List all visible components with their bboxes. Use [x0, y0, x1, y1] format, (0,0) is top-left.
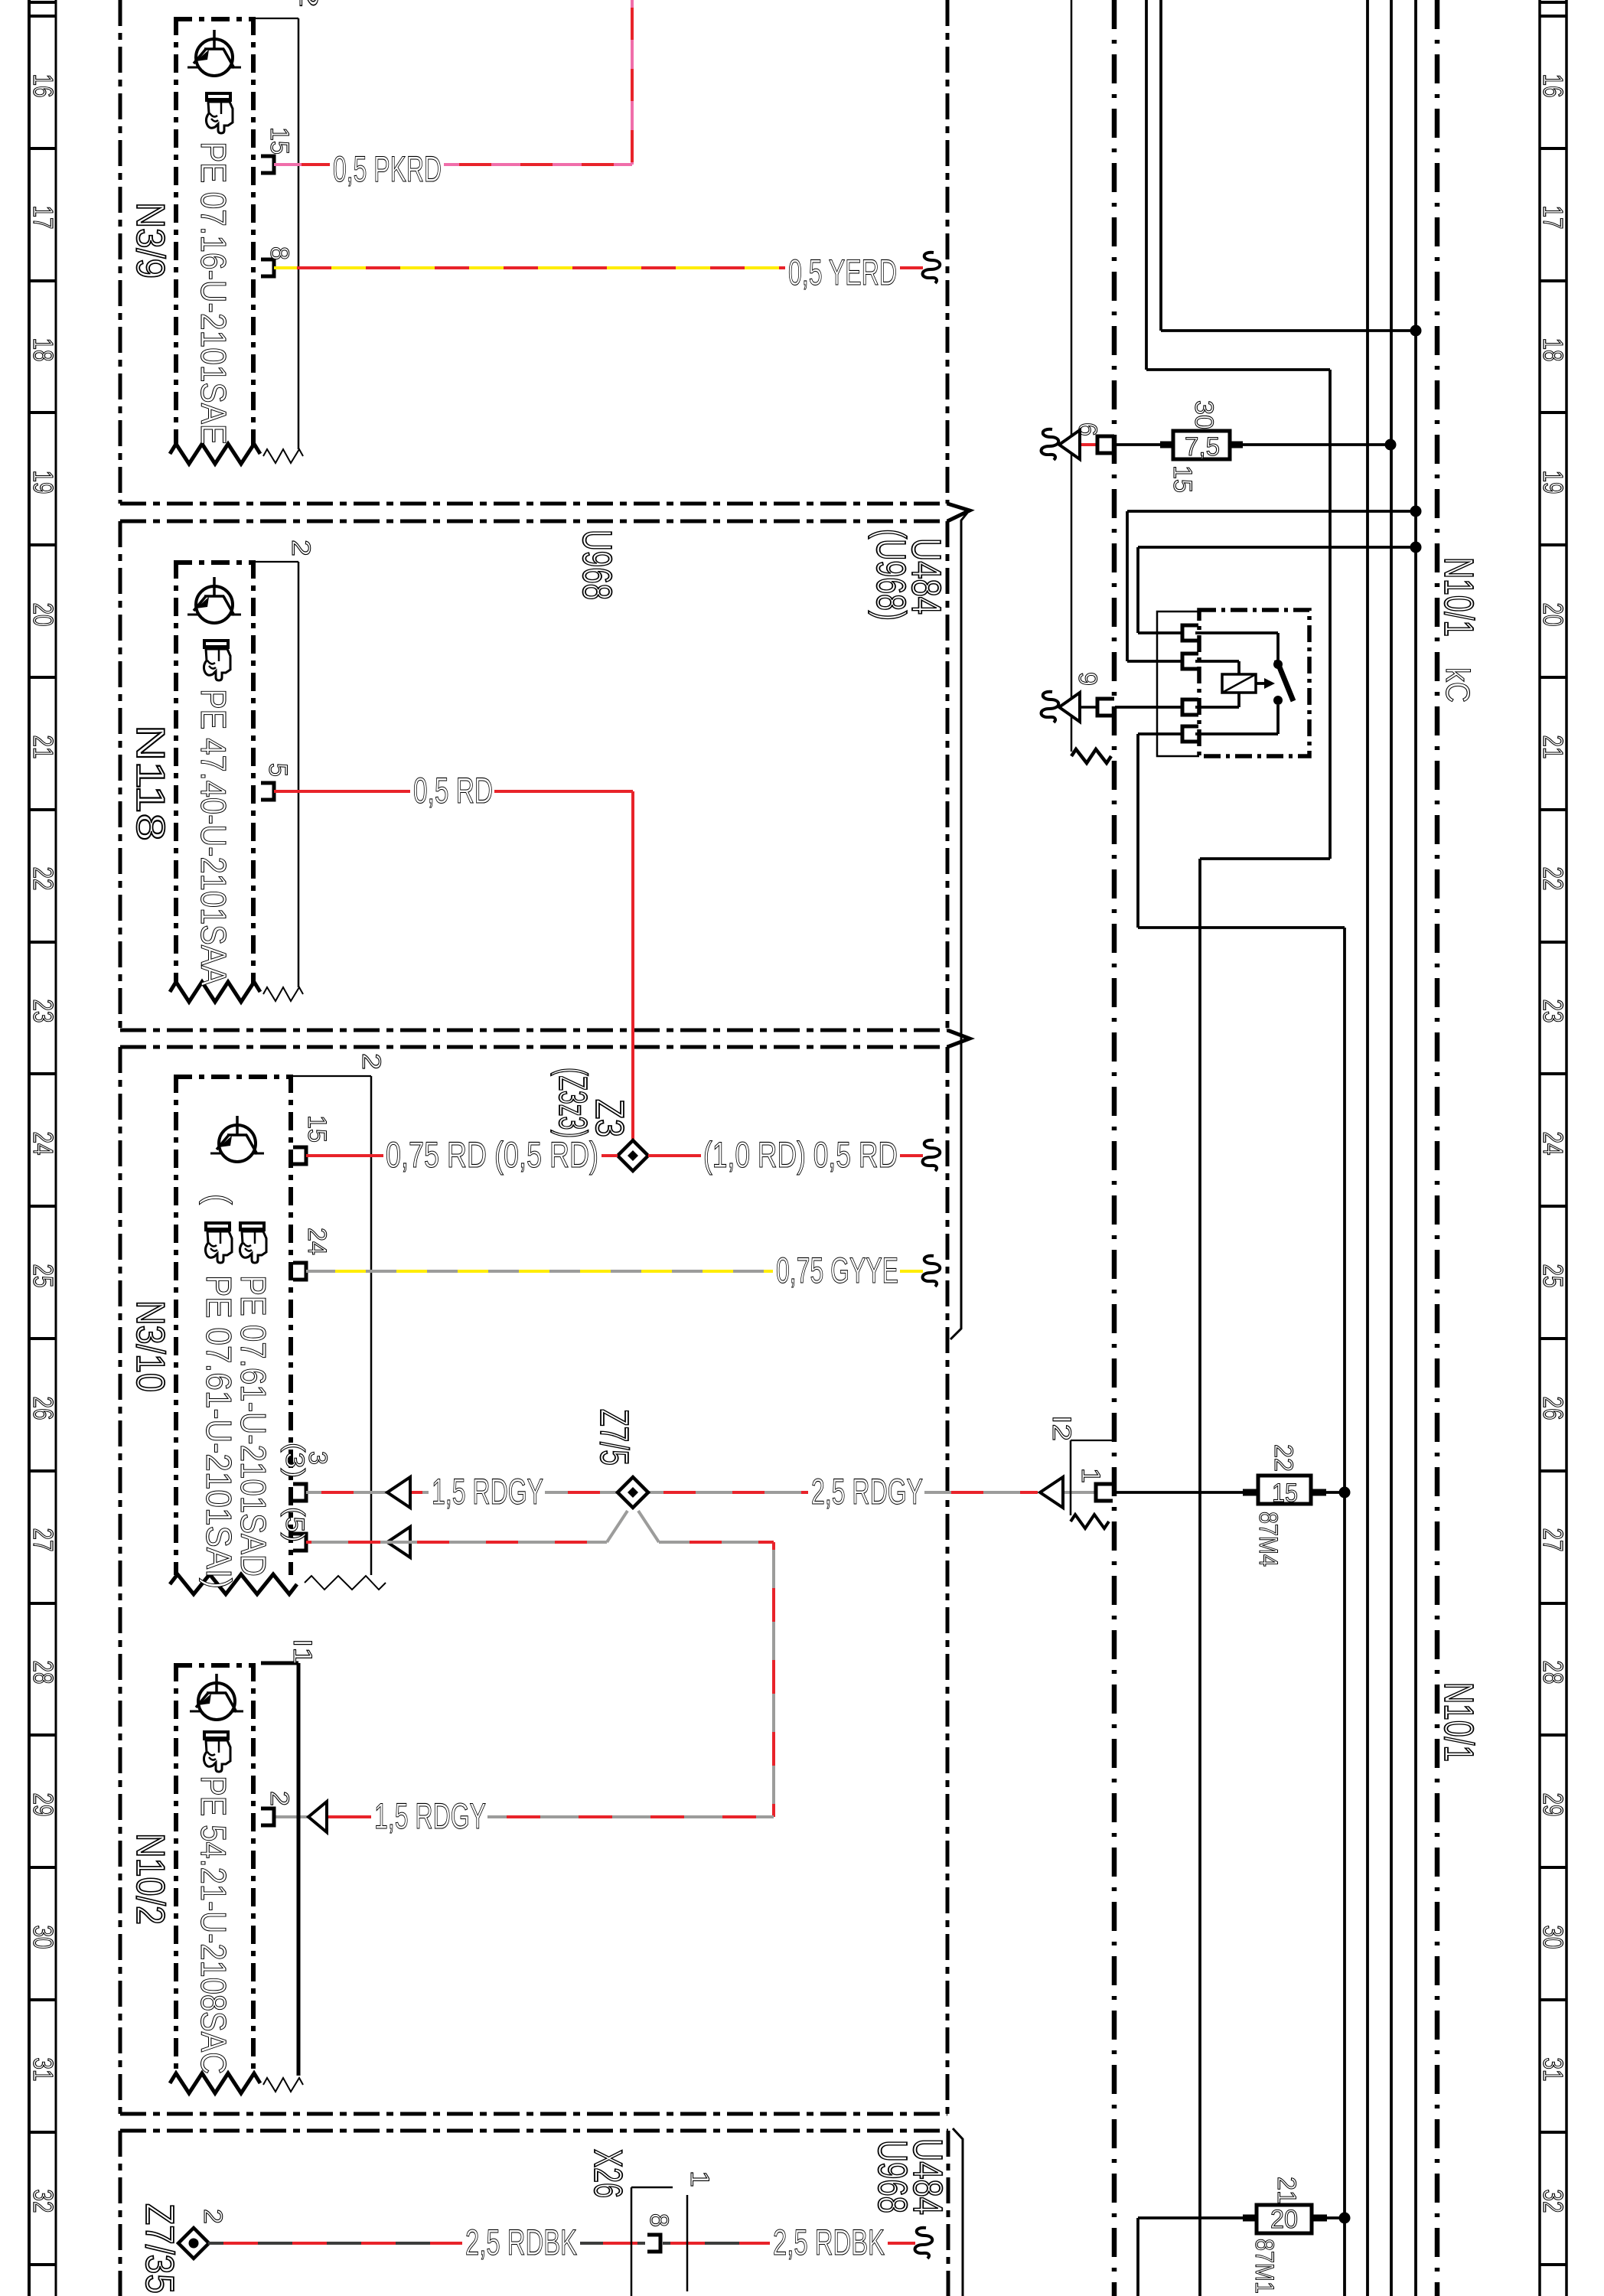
svg-text:2: 2 [357, 1053, 386, 1070]
wire 2,5 RDBK [208, 2242, 462, 2245]
pin 2 (N10/2) [261, 1808, 274, 1825]
pin 6 (N10/1) with fuse 7,5 [1042, 429, 1059, 460]
svg-text:15: 15 [302, 1115, 331, 1143]
svg-text:29: 29 [28, 1793, 59, 1817]
svg-text:8: 8 [265, 246, 294, 260]
svg-text:2,5 RDBK: 2,5 RDBK [465, 2222, 577, 2262]
N10/2 ECU symbol [198, 1683, 235, 1720]
wire relay pin4 to bus 1757 [1138, 732, 1182, 735]
N3/9 ECU symbol [196, 39, 233, 76]
svg-text:20: 20 [28, 603, 59, 627]
svg-text:PE 47.40-U-2101SAA: PE 47.40-U-2101SAA [194, 689, 233, 986]
svg-text:PE 54.21-U-2108SAC: PE 54.21-U-2108SAC [194, 1776, 233, 2074]
svg-text:28: 28 [28, 1661, 59, 1684]
svg-text:U968: U968 [869, 2140, 915, 2213]
wire from top via 1738 down [1145, 0, 1148, 370]
pin 9 (N10/1) relay feed [1042, 692, 1059, 722]
svg-text:20: 20 [1270, 2205, 1298, 2234]
svg-text:N3/10: N3/10 [128, 1300, 172, 1392]
svg-text:31: 31 [1537, 2058, 1569, 2082]
relay socket [1157, 612, 1199, 756]
labels U484 U968 bottom box [869, 2138, 950, 2215]
pin 3 (N3/10) [293, 1484, 306, 1501]
N3/10 hand icons [239, 1221, 266, 1263]
pin 8 (N3/9) [261, 259, 274, 276]
svg-text:1: 1 [685, 2170, 714, 2187]
svg-text:29: 29 [1537, 1793, 1569, 1817]
svg-text:15: 15 [1168, 465, 1197, 493]
svg-text:kC: kC [1439, 667, 1476, 703]
svg-text:23: 23 [1537, 1000, 1569, 1023]
svg-text:21: 21 [1537, 735, 1569, 759]
relay pins [1182, 625, 1198, 641]
svg-text:2: 2 [198, 2209, 227, 2224]
control unit N118 box [170, 560, 260, 1002]
fuse 15 (87M4) [1115, 1491, 1243, 1494]
svg-text:32: 32 [28, 2190, 59, 2213]
N10/2 hand icon [203, 1730, 230, 1772]
arrow into N10/1 pin 1 [1040, 1477, 1063, 1508]
wire 0,5 YERD [274, 266, 785, 269]
svg-text:0,75 RD (0,5 RD): 0,75 RD (0,5 RD) [386, 1134, 598, 1175]
svg-text:1,5 RDGY: 1,5 RDGY [432, 1471, 543, 1512]
svg-text:2: 2 [294, 0, 323, 8]
N10/1 right border [1435, 0, 1440, 2296]
relay coil [1222, 674, 1256, 693]
N10/1 connector strip I2 [1071, 1440, 1113, 1528]
svg-text:8: 8 [644, 2213, 673, 2227]
svg-text:N3/9: N3/9 [128, 202, 172, 279]
svg-text:(U968): (U968) [868, 529, 914, 621]
svg-text:X26: X26 [585, 2149, 630, 2198]
svg-text:21: 21 [28, 735, 59, 759]
N118 hand icon [203, 639, 230, 680]
N118 ECU symbol [196, 586, 233, 623]
pin 1 label (I2) [1096, 1484, 1113, 1501]
svg-text:Z7/5: Z7/5 [592, 1409, 636, 1466]
svg-text:(: ( [199, 1194, 239, 1205]
svg-text:26: 26 [28, 1397, 59, 1420]
connector X26 [631, 2187, 687, 2296]
wire relay pin1 up to bus [1138, 631, 1182, 634]
node Z7/35 [178, 2228, 209, 2258]
svg-text:30: 30 [28, 1926, 59, 1949]
svg-text:(1,0 RD) 0,5 RD: (1,0 RD) 0,5 RD [703, 1134, 898, 1175]
svg-text:I1: I1 [288, 1639, 317, 1665]
svg-text:23: 23 [28, 1000, 59, 1023]
N118 connector strip [253, 562, 303, 1001]
svg-text:5: 5 [263, 763, 292, 777]
fuse 7,5 [1173, 431, 1230, 459]
pin (5) N3/10 [293, 1534, 306, 1551]
node Z3 (Z3z3) [618, 1140, 648, 1171]
svg-text:16: 16 [28, 74, 59, 98]
svg-text:27: 27 [28, 1528, 59, 1552]
svg-text:0,5 YERD: 0,5 YERD [788, 252, 897, 292]
svg-text:22: 22 [1537, 867, 1569, 891]
svg-text:32: 32 [1537, 2190, 1569, 2213]
wire-end mark (RD) [923, 1140, 941, 1171]
svg-text:22: 22 [1269, 1444, 1298, 1472]
N3/9 hand icon [205, 92, 233, 133]
svg-text:25: 25 [1537, 1264, 1569, 1288]
subsystem box U968 [120, 521, 970, 1047]
svg-text:PE 07.61-U-2101SAI): PE 07.61-U-2101SAI) [199, 1275, 239, 1589]
subsystem box U484/U968 mid [120, 1047, 947, 2114]
N10/2 connector strip [261, 1663, 303, 2092]
N3/10 connector strip [291, 1076, 386, 1590]
pin 15 (N3/10) [293, 1147, 306, 1164]
wire-end mark (RDBK) [915, 2228, 933, 2258]
N10/1 left border [1112, 0, 1117, 2296]
svg-text:17: 17 [28, 206, 59, 230]
svg-text:87M1: 87M1 [1250, 2239, 1279, 2294]
svg-text:18: 18 [28, 338, 59, 362]
svg-text:22: 22 [28, 867, 59, 891]
pin 5 (N118) [261, 783, 274, 800]
svg-text:Z7/35: Z7/35 [137, 2203, 181, 2294]
N3/9 connector strip [253, 18, 303, 463]
arrow (wire 3) [387, 1477, 410, 1508]
svg-text:2,5 RDGY: 2,5 RDGY [811, 1471, 923, 1512]
pin 15 (N3/9) [261, 156, 274, 173]
svg-text:0,5 PKRD: 0,5 PKRD [333, 148, 442, 189]
wire 1,5 RDGY upper [306, 1491, 429, 1494]
N3/10 ECU symbol [219, 1125, 256, 1162]
pin 24 (N3/10) [293, 1263, 306, 1280]
right ruler [1537, 0, 1569, 2296]
N10/1 connector strip upper (pins 6,9) [1071, 0, 1111, 763]
wire from top to bus 1850 [1159, 0, 1162, 331]
svg-text:28: 28 [1537, 1661, 1569, 1684]
svg-text:2: 2 [286, 540, 315, 556]
svg-text:18: 18 [1537, 338, 1569, 362]
svg-text:2: 2 [265, 1791, 294, 1806]
arrow (N10/2 wire) [308, 1802, 327, 1832]
svg-text:19: 19 [1537, 471, 1569, 494]
bus lines [1366, 0, 1369, 2296]
brace bottom right [953, 2128, 963, 2296]
wire-end mark (YERD) [923, 253, 941, 283]
svg-text:17: 17 [1537, 206, 1569, 230]
svg-text:U968: U968 [574, 530, 620, 600]
svg-text:26: 26 [1537, 1397, 1569, 1420]
svg-text:21: 21 [1272, 2177, 1301, 2204]
svg-text:24: 24 [302, 1228, 331, 1255]
node Z7/5 [618, 1477, 648, 1508]
svg-text:1: 1 [1076, 1468, 1105, 1483]
brace U484(U968) [950, 513, 967, 1339]
pin 8 (X26) [647, 2235, 660, 2252]
svg-text:(Z3z3): (Z3z3) [550, 1068, 595, 1138]
wire 0,75 RD (0,5 RD) [306, 1154, 383, 1157]
svg-text:N10/1: N10/1 [1436, 557, 1482, 637]
subsystem box U484(U968) top [120, 0, 970, 521]
control unit N3/10 box [170, 1075, 297, 1594]
svg-text:N10/2: N10/2 [128, 1833, 172, 1925]
svg-text:27: 27 [1537, 1528, 1569, 1552]
svg-text:15: 15 [1272, 1479, 1298, 1508]
svg-text:24: 24 [1537, 1132, 1569, 1156]
svg-text:PE 07.16-U-2101SAE: PE 07.16-U-2101SAE [194, 142, 233, 445]
svg-text:31: 31 [28, 2058, 59, 2082]
left ruler [28, 0, 59, 2296]
wire-end mark (GYYE) [923, 1256, 941, 1287]
svg-text:N118: N118 [128, 725, 172, 841]
svg-text:2,5 RDBK: 2,5 RDBK [773, 2222, 885, 2262]
svg-text:7,5: 7,5 [1185, 432, 1220, 461]
relay switch [1273, 660, 1283, 669]
svg-text:19: 19 [28, 471, 59, 494]
wire 0,5 PKRD [274, 163, 330, 166]
fuse 20 (87M1) [1136, 2218, 1139, 2296]
svg-text:(5): (5) [280, 1507, 309, 1542]
relay box [1199, 610, 1309, 756]
svg-text:(3): (3) [280, 1443, 309, 1478]
svg-text:0,75 GYYE: 0,75 GYYE [776, 1250, 898, 1290]
svg-text:16: 16 [1537, 74, 1569, 98]
control unit N3/9 box [170, 17, 260, 464]
label U484 (U968) [868, 529, 949, 621]
svg-text:25: 25 [28, 1264, 59, 1288]
svg-text:24: 24 [28, 1132, 59, 1156]
wire 0,75 GYYE [306, 1270, 773, 1273]
svg-text:20: 20 [1537, 603, 1569, 627]
wire 0,5 RD [274, 790, 410, 793]
svg-text:15: 15 [265, 127, 294, 155]
svg-text:I2: I2 [1047, 1415, 1076, 1441]
svg-text:0,5 RD: 0,5 RD [413, 770, 493, 810]
svg-text:1,5 RDGY: 1,5 RDGY [374, 1795, 486, 1836]
relay internal wiring [1195, 631, 1278, 634]
svg-text:9: 9 [1073, 672, 1102, 686]
svg-text:30: 30 [1537, 1926, 1569, 1949]
svg-text:87M4: 87M4 [1254, 1512, 1283, 1567]
wire relay pin2 up to bus [1127, 660, 1182, 663]
subsystem box U484 U968 bottom [120, 2131, 948, 2296]
control unit N10/2 box [170, 1663, 260, 2093]
svg-text:N10/1: N10/1 [1436, 1682, 1482, 1762]
svg-text:30: 30 [1189, 400, 1218, 429]
arrow (wire 5) [387, 1527, 410, 1557]
